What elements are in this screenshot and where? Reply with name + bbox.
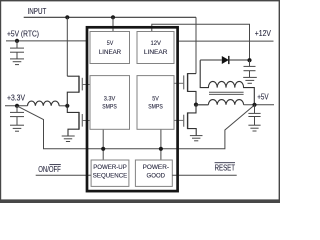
wire +12V rail (178, 40, 274, 42)
svg-text:5V: 5V (107, 40, 114, 47)
transistor Q2 bottom-left FET (67, 106, 90, 136)
svg-text:RESET: RESET (215, 164, 235, 173)
svg-text:LINEAR: LINEAR (99, 49, 122, 56)
svg-text:SMPS: SMPS (102, 104, 117, 111)
svg-text:INPUT: INPUT (28, 7, 47, 16)
junction dot INPUT to left FET (65, 15, 69, 19)
block 3.3V SMPS (90, 76, 130, 130)
junction dot 3.3V feedback (101, 147, 105, 151)
svg-text:12V: 12V (150, 40, 161, 47)
svg-text:+5V: +5V (257, 92, 269, 101)
overline on OFF (49, 164, 60, 166)
capacitor C1 (10, 41, 24, 59)
junction dot INPUT to 5V linear (111, 15, 115, 19)
svg-text:POWER-: POWER- (143, 164, 169, 171)
block 5V LINEAR (90, 32, 130, 64)
svg-text:+3.3V: +3.3V (7, 93, 26, 102)
wire INPUT drop to 5V LINEAR pin (112, 17, 114, 31)
capacitor C3 (244, 60, 256, 77)
wire 3.3V feedback to IC and 5V feedback from +5V node (18, 105, 255, 149)
svg-text:SEQUENCE: SEQUENCE (93, 173, 128, 180)
wire +5V RTC rail (6, 40, 87, 42)
wire INPUT drop to left FET drain (66, 17, 68, 76)
svg-text:LINEAR: LINEAR (144, 49, 168, 56)
wire INPUT drop to right FET drain (195, 17, 197, 73)
ground for C1 (10, 59, 24, 65)
junction dot 5V feedback (159, 147, 163, 151)
ground for C2 (10, 125, 24, 131)
junction dot left switch node (65, 104, 69, 108)
block 12V LINEAR (137, 32, 174, 64)
wire 12V linear input from diode node (152, 24, 250, 60)
svg-text:5V: 5V (152, 95, 159, 102)
junction dot +5V node (252, 103, 256, 107)
transistor Q1 top-left FET (67, 76, 90, 106)
transformer T1 secondary winding (200, 60, 254, 105)
inductor L1 (28, 101, 60, 106)
capacitor C2 (10, 106, 24, 125)
block POWER-GOOD (135, 160, 172, 186)
wire +3.3V rail (5, 105, 28, 107)
wire RESET output (172, 174, 236, 176)
ground for Q2 source (62, 136, 75, 142)
capacitor C4 (248, 105, 260, 125)
junction dot +3.3V (15, 104, 19, 108)
block 5V SMPS (137, 76, 174, 130)
op-amp U1 main IC box (87, 27, 178, 191)
ground for C3 (243, 77, 257, 83)
diode D1 (200, 59, 222, 61)
wire INPUT rail (24, 16, 196, 18)
ground for Q4 source (190, 136, 203, 141)
wire 3.3V SMPS to power-up sequence (102, 129, 104, 160)
overline on RESET (215, 162, 235, 164)
svg-text:3.3V: 3.3V (104, 95, 116, 102)
wire +5V rail (244, 104, 274, 106)
svg-text:ON/OFF: ON/OFF (38, 165, 61, 174)
junction dot right switch node (194, 103, 198, 107)
block POWER-UP SEQUENCE (91, 160, 129, 186)
transformer T1 primary winding (196, 100, 244, 105)
svg-text:POWER-UP: POWER-UP (93, 164, 127, 171)
svg-text:SMPS: SMPS (148, 104, 163, 111)
transistor Q4 bottom-right FET (174, 105, 196, 136)
svg-text:+5V (RTC): +5V (RTC) (7, 29, 39, 38)
transistor Q3 top-right FET (174, 73, 196, 105)
wire ON/OFF input (36, 174, 91, 176)
transformer T1 core (209, 92, 244, 94)
wire 5V SMPS to power-good (160, 129, 162, 160)
svg-text:+12V: +12V (255, 29, 272, 38)
ground for C4 (248, 125, 260, 131)
junction dot +5V RTC (15, 39, 19, 43)
wire L1 to switch node (59, 105, 67, 107)
junction dot diode cathode node (247, 58, 251, 62)
svg-text:GOOD: GOOD (147, 173, 166, 180)
